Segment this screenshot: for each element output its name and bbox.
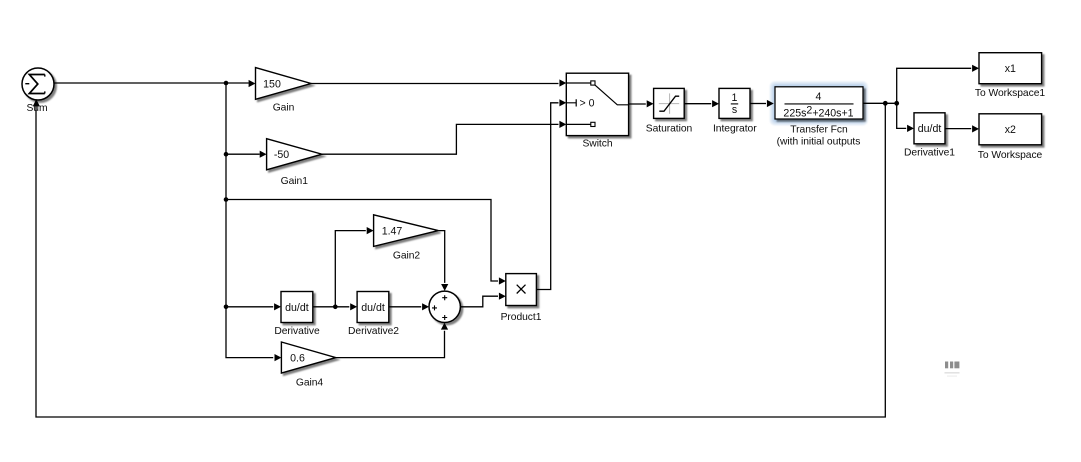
wire Transfer Fcn output to right junction — [863, 102, 897, 104]
add block (three plus inputs) — [429, 291, 460, 322]
wire trunk to Gain4 input — [275, 354, 282, 361]
svg-text:Gain2: Gain2 — [393, 251, 421, 262]
wire Derivative2 output to Add left input — [389, 303, 429, 310]
wire Add output to Product1 input 2 — [460, 293, 505, 307]
svg-text:4: 4 — [816, 91, 822, 103]
svg-text:Gain: Gain — [273, 102, 295, 113]
svg-text:0.6: 0.6 — [290, 353, 305, 365]
svg-text:To Workspace1: To Workspace1 — [975, 88, 1045, 99]
derivative block Derivative2 — [357, 292, 389, 323]
transfer fcn block Transfer Fcn — [775, 87, 863, 120]
svg-text:-50: -50 — [274, 149, 289, 161]
svg-text:x1: x1 — [1005, 63, 1016, 75]
node junction trunk Gain1 — [224, 152, 229, 157]
wire trunk vertical left — [226, 83, 273, 358]
svg-text:> 0: > 0 — [580, 98, 595, 110]
derivative block Derivative1 — [914, 113, 945, 144]
derivative block Derivative — [281, 292, 313, 323]
wire Gain1 output to Switch input 3 — [322, 121, 566, 154]
wire Gain output to Switch input 1 — [311, 79, 566, 86]
wire feedback loop to Sum — [36, 101, 885, 417]
gain block Gain4 — [281, 342, 335, 373]
wire Derivative output to Derivative2 input — [313, 303, 357, 310]
wire derivative junction to Gain2 input — [335, 227, 373, 307]
node junction trunk upper product feed — [224, 197, 229, 202]
node junction workspace branch — [894, 101, 899, 106]
svg-text:s: s — [732, 104, 737, 116]
svg-text:Derivative2: Derivative2 — [348, 326, 399, 337]
node junction feedback takeoff — [883, 101, 888, 106]
gain block Gain2 — [374, 215, 439, 247]
svg-text:Transfer Fcn: Transfer Fcn — [790, 125, 848, 136]
gray ui mark — [945, 362, 960, 377]
product block Product1 — [506, 274, 537, 306]
transfer fcn selection glow — [770, 81, 868, 125]
wire branch up to To Workspace1 — [897, 65, 979, 104]
svg-text:Switch: Switch — [582, 139, 612, 150]
svg-text:du/dt: du/dt — [918, 123, 942, 135]
integrator block Integrator — [719, 88, 750, 118]
svg-text:1.47: 1.47 — [382, 226, 403, 238]
wire trunk to Derivative input — [226, 303, 281, 310]
svg-text:Derivative1: Derivative1 — [904, 148, 955, 159]
node junction between derivatives — [333, 305, 338, 310]
wire Switch output to Saturation input — [629, 100, 654, 107]
svg-text:Integrator: Integrator — [713, 124, 757, 135]
svg-text:du/dt: du/dt — [361, 302, 385, 314]
sum block Sum — [22, 68, 54, 100]
node junction trunk Derivative feed — [224, 305, 229, 310]
wire branch down to Derivative1 — [897, 103, 914, 132]
svg-text:du/dt: du/dt — [285, 302, 309, 314]
wire trunk to Product1 input 1 — [226, 200, 506, 285]
wire trunk to Gain1 — [226, 151, 267, 158]
feedback arrowhead into Sum — [33, 99, 40, 106]
svg-text:Product1: Product1 — [501, 312, 542, 323]
switch block Switch — [566, 73, 628, 135]
to workspace block To Workspace — [979, 114, 1042, 145]
svg-text:Gain1: Gain1 — [281, 176, 309, 187]
svg-text:(with initial outputs: (with initial outputs — [777, 137, 861, 148]
svg-text:Saturation: Saturation — [646, 124, 693, 135]
svg-text:1: 1 — [732, 92, 738, 104]
wire Gain4 output to Add bottom input — [336, 323, 448, 358]
gain block Gain — [256, 68, 312, 100]
svg-text:225s2+240s+1: 225s2+240s+1 — [783, 105, 853, 120]
to workspace block To Workspace1 — [979, 53, 1042, 84]
node junction on Sum output trunk — [224, 81, 229, 86]
svg-text:Sum: Sum — [26, 103, 47, 114]
wire Product1 output to Switch input 2 — [536, 99, 566, 289]
wire Gain2 output to Add top input — [438, 231, 448, 291]
wire Derivative1 output to To Workspace — [945, 125, 979, 132]
svg-text:Gain4: Gain4 — [296, 378, 324, 389]
svg-text:Derivative: Derivative — [274, 326, 320, 337]
wire Integrator output to Transfer Fcn input — [750, 100, 774, 107]
svg-text:To Workspace: To Workspace — [978, 150, 1043, 161]
wire Sum output to Gain input — [54, 80, 256, 87]
svg-text:150: 150 — [263, 79, 281, 91]
gain block Gain1 — [267, 139, 322, 170]
saturation block Saturation — [654, 88, 685, 118]
svg-text:x2: x2 — [1005, 124, 1016, 136]
wire Saturation output to Integrator input — [684, 100, 719, 107]
